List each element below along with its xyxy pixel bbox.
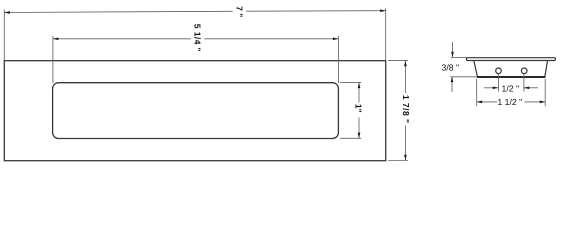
svg-text:1/2 ": 1/2 ": [502, 84, 520, 94]
svg-text:1 7/8 ": 1 7/8 ": [401, 95, 411, 124]
dimension 7" : line right segment: [246, 10, 386, 13]
dimension 1" : extension line bottom: [340, 137, 361, 139]
dimension 7" : extension line left: [3, 10, 5, 61]
svg-text:5 1/4 ": 5 1/4 ": [192, 24, 202, 52]
screw hole left: [496, 68, 502, 74]
dimension 5 1/4" : extension line left: [52, 36, 54, 83]
dimension 5 1/4" : right arrowhead: [333, 37, 339, 40]
svg-text:1 1/2 ": 1 1/2 ": [497, 97, 522, 107]
dimension 7" : extension line right: [385, 8, 387, 60]
svg-text:7 ": 7 ": [235, 6, 245, 17]
dimension 1 7/8" : extension line top: [388, 60, 408, 62]
side view body right slant: [545, 61, 548, 78]
dimension 1 1/2" : right arrowhead: [540, 101, 546, 104]
dimension 3/8" : lower dim segment with up arrow: [451, 77, 453, 92]
dimension 1/2" : hole centre extension left: [497, 74, 499, 92]
dimension 1 7/8" : extension line bottom: [388, 160, 408, 162]
side view body left slant: [474, 61, 478, 78]
dimension 5 1/4" : left arrowhead: [53, 37, 59, 40]
dimension 1/2" : hole centre extension right: [523, 74, 525, 92]
dimension 1 1/2" : extension line right: [544, 79, 546, 107]
dimension 7" : left arrowhead: [4, 11, 10, 14]
dimension 7" : right arrowhead: [380, 9, 386, 12]
screw hole right: [521, 68, 527, 74]
dimension 1 7/8" : top arrowhead: [404, 61, 407, 66]
dimension 1" : line bottom segment: [358, 118, 360, 139]
dimension 3/8" : upper dim segment with down arrow: [452, 42, 454, 57]
dimension 1" : extension line top: [340, 81, 361, 83]
dimension 1" : bottom arrowhead: [358, 133, 361, 139]
dimension 5 1/4" : line left segment: [53, 38, 191, 40]
svg-text:3/8 ": 3/8 ": [442, 62, 460, 72]
side view body bottom line: [477, 76, 546, 78]
dimension 5 1/4" : line right segment: [204, 38, 338, 40]
dimension 1 7/8" : line bottom segment: [404, 126, 406, 161]
dimension 1" : line top segment: [358, 83, 360, 103]
recessed pocket rounded rectangle: [53, 83, 339, 139]
dimension 1/2" : right tail with arrow: [524, 87, 538, 89]
dimension 1 7/8" : bottom arrowhead: [404, 155, 407, 161]
dimension 5 1/4" : extension line right: [337, 36, 339, 83]
svg-text:1": 1": [354, 104, 364, 113]
dimension 1 1/2" : left arrowhead: [477, 101, 483, 104]
dimension 1" : top arrowhead: [358, 83, 361, 89]
dimension 1 1/2" : line left segment: [477, 101, 497, 103]
dimension 1 1/2" : extension line left: [476, 79, 478, 107]
side view flange (capsule bar): [466, 58, 555, 61]
dimension 1 7/8" : line top segment: [404, 61, 406, 93]
dimension 1 1/2" : line right segment: [525, 101, 546, 103]
dimension 3/8" : flange-top extension line: [451, 56, 467, 58]
dimension 3/8" : body-bottom extension line: [450, 76, 476, 78]
outer plate rectangle (front view): [4, 61, 385, 161]
dimension 7" : line left segment: [4, 11, 232, 12]
dimension 1/2" : left tail with arrow: [484, 87, 498, 89]
